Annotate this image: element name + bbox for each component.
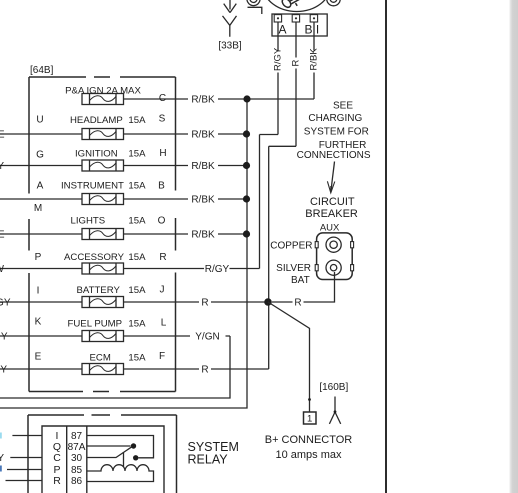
svg-text:BREAKER: BREAKER [305, 208, 358, 220]
relay NC contact dot [131, 443, 136, 448]
svg-text:E: E [35, 352, 42, 363]
pin B lead [295, 22, 297, 36]
wire row R R/GY [124, 268, 260, 270]
svg-text:R: R [201, 298, 208, 309]
svg-text:15A: 15A [128, 353, 146, 364]
wire row B R/BK [124, 198, 247, 200]
svg-text:ACCESSORY: ACCESSORY [64, 252, 125, 263]
wire into fuse A/INSTRUMENT from left [0, 198, 82, 200]
svg-text:87: 87 [71, 431, 83, 442]
svg-text:F: F [159, 351, 165, 362]
fuse F8 FUEL PUMP [82, 331, 124, 342]
wire into 33B from top [229, 0, 231, 10]
junction dot row S [243, 130, 250, 137]
relay actuator link [123, 452, 125, 467]
top edge [29, 76, 176, 78]
wire R down to battery node [268, 146, 270, 369]
connector [160B] Y symbol [329, 397, 340, 424]
wire R/GY down to accessory row [259, 135, 261, 269]
relay left wire label fragment (pin I) [0, 433, 2, 439]
wire to relay pin C [10, 457, 42, 459]
breaker copper terminal [326, 237, 341, 252]
system relay inner box [42, 426, 164, 493]
relay coil on pins 85/86 [87, 465, 154, 482]
svg-text:M: M [34, 203, 42, 214]
wire into fuse M/LIGHTS from left [0, 233, 82, 235]
arrow from charging note to circuit breaker [331, 162, 334, 191]
svg-text:R: R [291, 60, 302, 67]
wire row J R to battery node [124, 301, 269, 303]
relay pin number column divider [86, 426, 88, 493]
33B male arrow [224, 4, 237, 13]
svg-text:15A: 15A [128, 216, 146, 227]
svg-text:Y: Y [1, 332, 8, 343]
svg-text:87A: 87A [68, 442, 86, 453]
breaker side tabs [315, 242, 318, 248]
relay pin letter column divider [66, 426, 68, 493]
left edge [28, 77, 30, 392]
B+ connector terminal box [304, 412, 317, 424]
svg-text:R/BK: R/BK [191, 195, 215, 206]
svg-text:I: I [37, 286, 40, 297]
wire R/BK from pin I down to fuse row C [313, 36, 315, 51]
svg-text:AUX: AUX [320, 222, 340, 233]
fuse block [64B] outline (dashed) [29, 77, 176, 392]
wire R/GY from pin A down [277, 36, 279, 51]
wire into fuse K/FUEL PUMP from left [0, 335, 82, 337]
svg-text:15A: 15A [128, 252, 146, 263]
svg-text:SYSTEM FOR: SYSTEM FOR [304, 127, 369, 138]
svg-text:FUEL PUMP: FUEL PUMP [68, 319, 123, 330]
svg-text:INSTRUMENT: INSTRUMENT [61, 181, 124, 192]
pin B terminal [292, 15, 299, 22]
svg-text:Y: Y [0, 453, 4, 464]
33B female Y [223, 16, 237, 37]
svg-text:R/BK: R/BK [191, 130, 215, 141]
svg-text:15A: 15A [128, 319, 146, 330]
svg-text:L: L [161, 318, 167, 329]
svg-text:R: R [294, 298, 301, 309]
svg-text:R/BK: R/BK [191, 161, 215, 172]
wire R from battery node to circuit breaker [272, 272, 335, 302]
key in switch [281, 0, 302, 9]
wire row S R/BK [124, 133, 247, 135]
relay NO contact dot [133, 455, 138, 460]
fuse F4 INSTRUMENT [82, 194, 124, 205]
svg-text:GY: GY [0, 298, 11, 309]
R/BK bus vertical [0, 99, 247, 408]
wire row L Y/GN [124, 335, 231, 337]
svg-text:S: S [159, 114, 166, 125]
wire to relay pin P [7, 469, 42, 471]
svg-text:10 amps max: 10 amps max [275, 449, 342, 461]
svg-text:CIRCUIT: CIRCUIT [310, 196, 355, 208]
breaker silver/bat terminal [326, 260, 341, 275]
switch face ellipse [263, 0, 330, 12]
battery node junction dot [264, 298, 272, 306]
svg-text:[64B]: [64B] [30, 65, 54, 76]
ignition switch connector block, terminals A B I [272, 14, 327, 36]
svg-text:86: 86 [71, 476, 83, 487]
svg-text:R/GY: R/GY [205, 264, 230, 275]
svg-text:O: O [158, 216, 166, 227]
svg-text:85: 85 [71, 465, 83, 476]
svg-text:[160B]: [160B] [319, 382, 348, 393]
svg-text:W: W [0, 264, 5, 275]
svg-text:15A: 15A [128, 149, 146, 160]
svg-text:15A: 15A [128, 115, 146, 126]
wire row H R/BK [124, 165, 247, 167]
wire into fuse P/ACCESSORY from left [0, 268, 82, 270]
ignition switch IGN (partial, cut at top) [247, 0, 340, 14]
svg-text:[33B]: [33B] [218, 40, 242, 51]
page border line [385, 0, 387, 493]
svg-text:15A: 15A [128, 181, 146, 192]
wire into fuse E/ECM from left [0, 368, 82, 370]
pin I terminal [310, 15, 317, 22]
connector [33B] break symbol [223, 0, 237, 37]
svg-text:R/GY: R/GY [273, 47, 284, 71]
svg-text:SEE: SEE [333, 100, 353, 111]
switch right mounting ear [327, 0, 341, 6]
pin A lead [277, 22, 279, 36]
right edge [175, 77, 177, 392]
svg-text:R: R [159, 252, 166, 263]
splice tick on B+ wire [308, 398, 311, 401]
fuse F6 ACCESSORY [82, 263, 124, 274]
svg-text:RELAY: RELAY [188, 453, 229, 467]
svg-text:H: H [159, 148, 166, 159]
svg-text:G: G [36, 150, 44, 161]
fuse F2 HEADLAMP [82, 129, 124, 140]
svg-text:R/BK: R/BK [191, 95, 215, 106]
wire Y/GN down from fuel pump row [0, 336, 230, 398]
svg-text:BAT: BAT [291, 275, 310, 286]
svg-text:P: P [35, 252, 42, 263]
wire into fuse I/BATTERY from left [0, 301, 82, 303]
svg-text:I: I [316, 23, 319, 37]
svg-text:SILVER: SILVER [276, 263, 311, 274]
fuse F7 BATTERY [82, 297, 124, 308]
svg-text:15A: 15A [128, 285, 146, 296]
svg-text:COPPER: COPPER [270, 240, 312, 251]
junction dot row O [243, 230, 250, 237]
wire R from pin B down [295, 36, 297, 58]
svg-text:U: U [36, 115, 43, 126]
svg-text:R: R [201, 365, 208, 376]
junction dot row H [243, 162, 250, 169]
system relay outer dashed box [28, 415, 177, 493]
wire to relay pin R [6, 480, 43, 482]
svg-text:C: C [53, 452, 61, 464]
svg-text:E: E [0, 230, 5, 241]
svg-text:R/BK: R/BK [309, 48, 320, 71]
wire R diagonal to B+ connector [268, 302, 310, 412]
svg-text:HEADLAMP: HEADLAMP [70, 115, 123, 126]
wire R jog left [269, 145, 296, 147]
relay left wire label fragment (pin P) [0, 466, 2, 472]
svg-text:ECM: ECM [90, 353, 111, 364]
fuse F3 IGNITION [82, 160, 124, 171]
relay wire 87 to NO contact [87, 436, 154, 458]
svg-text:E: E [0, 130, 5, 141]
wire to relay pin I [12, 435, 42, 437]
pin A terminal [274, 15, 281, 22]
bottom edge [29, 391, 176, 393]
svg-text:Y: Y [0, 161, 4, 172]
junction dot row B [243, 195, 250, 202]
pin I lead [313, 22, 315, 36]
svg-text:P&A IGN 2A MAX: P&A IGN 2A MAX [65, 86, 141, 97]
wire row C R/BK [124, 98, 315, 100]
wire R/GY jog left [260, 134, 279, 136]
svg-text:C: C [159, 93, 166, 104]
svg-text:K: K [35, 317, 42, 328]
svg-text:J: J [160, 285, 165, 296]
fuse F5 LIGHTS [82, 229, 124, 240]
fuse F1 P&A IGN 2A MAX [82, 94, 124, 105]
svg-text:BATTERY: BATTERY [77, 285, 121, 296]
relay wire 30 and switch lever [87, 447, 132, 458]
svg-text:Y/GN: Y/GN [195, 332, 219, 343]
junction dot row C [243, 95, 250, 102]
switch left bracket [248, 7, 262, 14]
wire into fuse G/IGNITION from left [0, 165, 82, 167]
svg-text:CHARGING: CHARGING [308, 113, 362, 124]
svg-text:GY: GY [0, 365, 7, 376]
svg-text:CONNECTIONS: CONNECTIONS [297, 150, 371, 161]
fuse F9 ECM [82, 364, 124, 375]
svg-text:B: B [158, 181, 165, 192]
svg-text:A: A [278, 23, 286, 37]
svg-text:R: R [53, 475, 61, 487]
svg-text:1: 1 [307, 414, 312, 425]
relay wire 87A to NC contact [87, 445, 131, 447]
wire into fuse U/HEADLAMP from left [0, 133, 82, 135]
circuit breaker AUX body [315, 233, 353, 280]
svg-text:IGNITION: IGNITION [75, 149, 118, 160]
switch left mounting ear [247, 0, 260, 6]
wire row F R to battery node [124, 368, 269, 370]
svg-text:30: 30 [71, 453, 83, 464]
svg-text:LIGHTS: LIGHTS [71, 216, 106, 227]
svg-text:R/BK: R/BK [191, 230, 215, 241]
svg-text:A: A [37, 181, 44, 192]
wire row O R/BK [124, 233, 247, 235]
svg-text:B: B [304, 23, 312, 37]
svg-text:B+ CONNECTOR: B+ CONNECTOR [265, 434, 353, 446]
